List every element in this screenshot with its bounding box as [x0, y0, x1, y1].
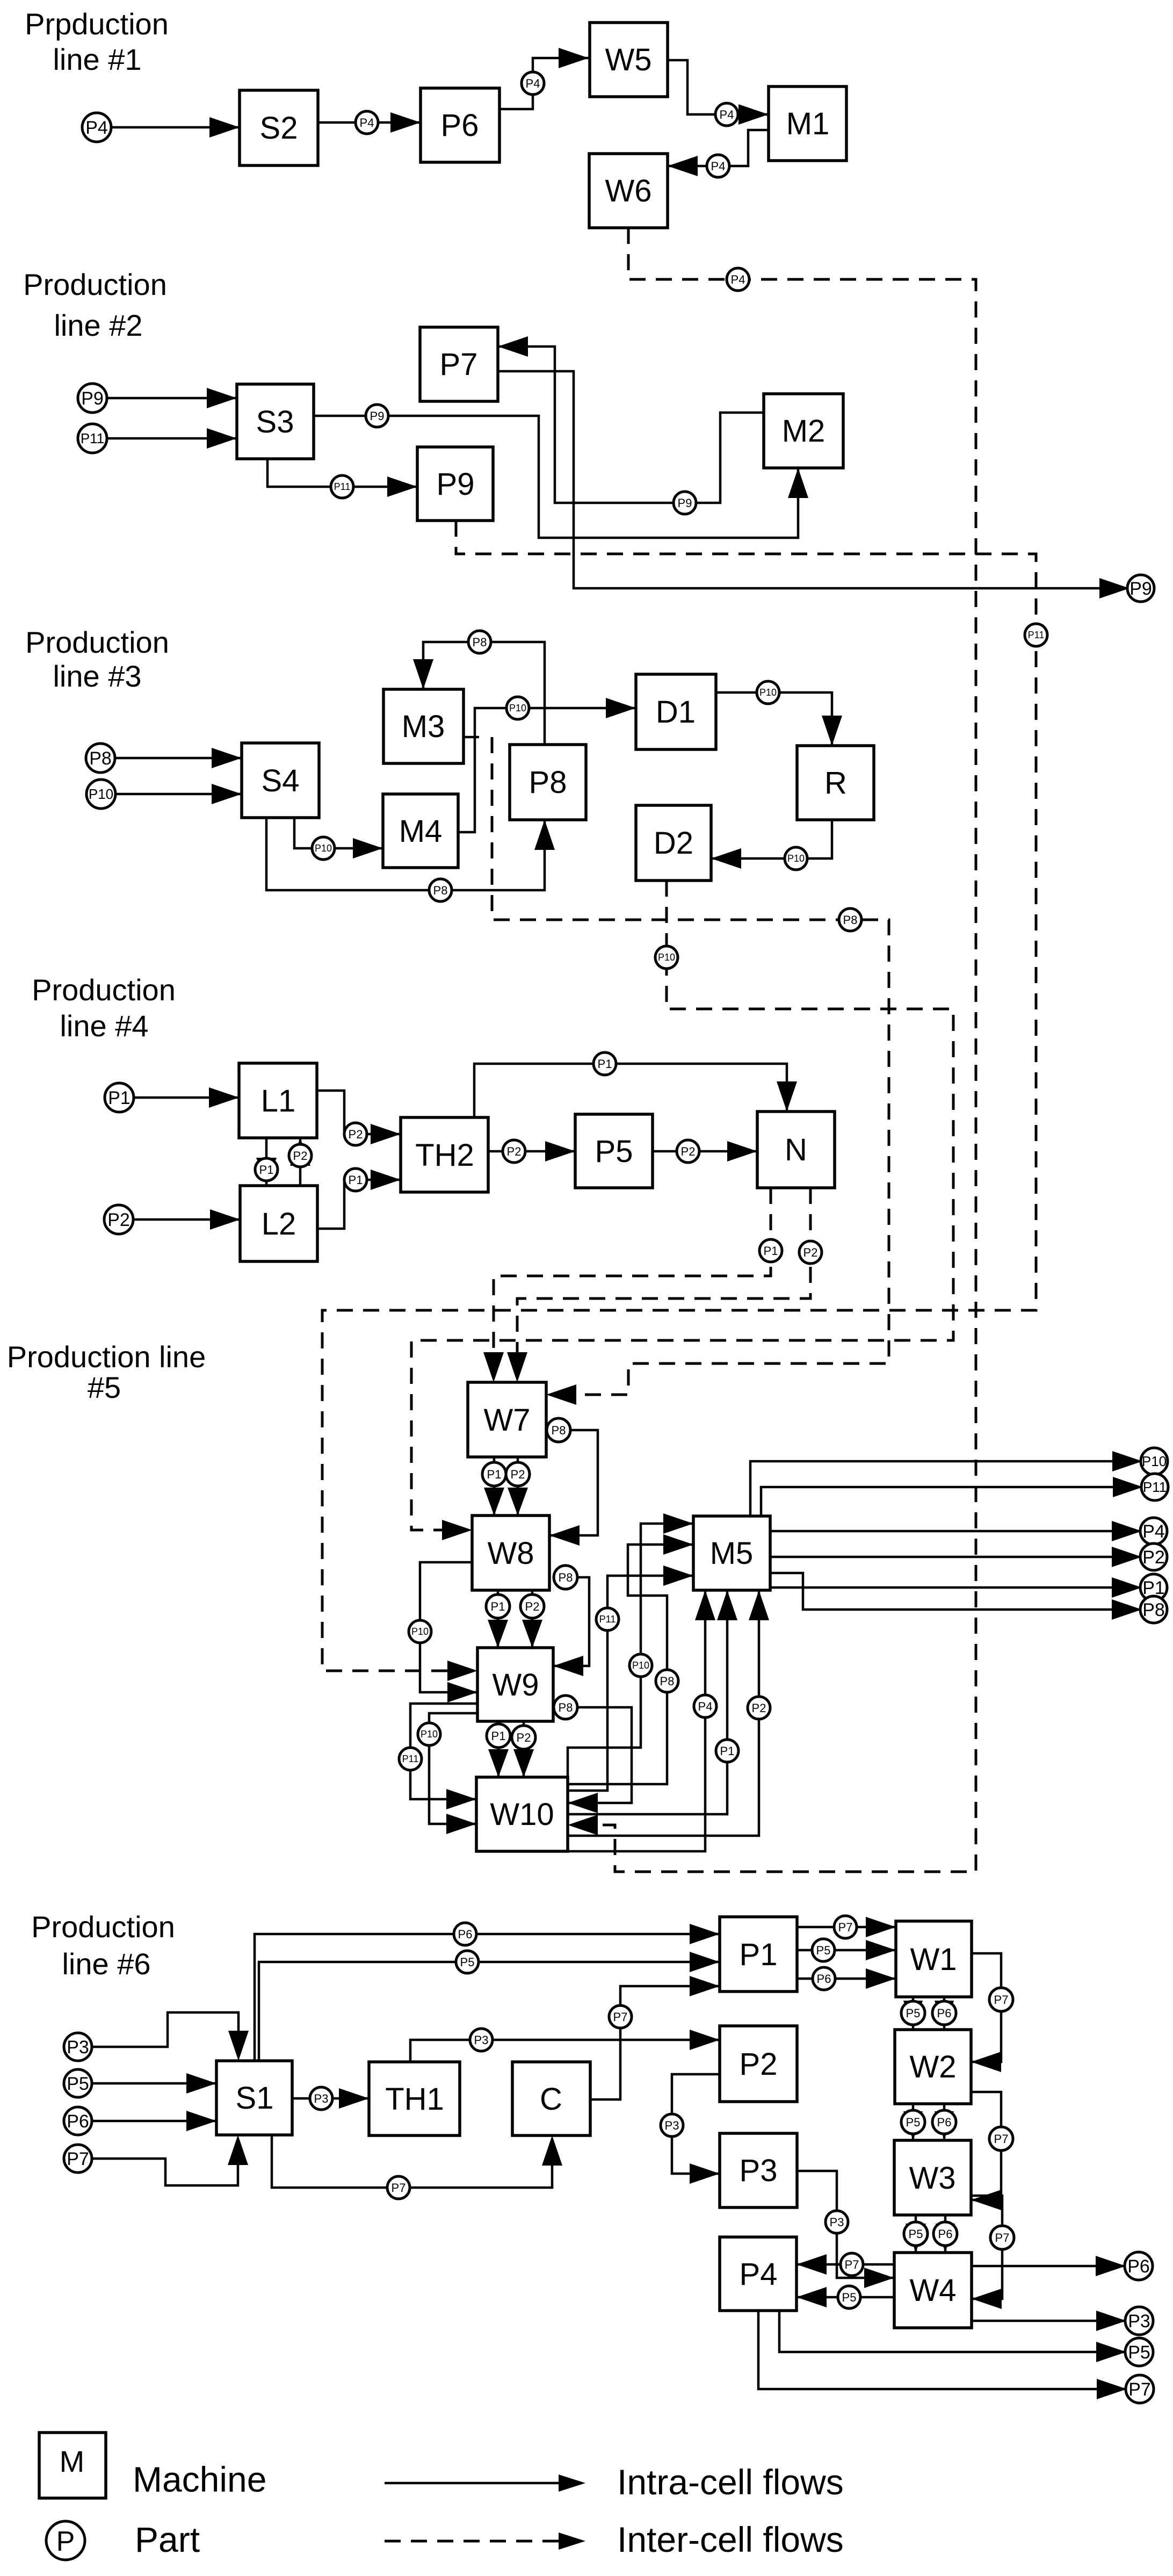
- arrow into L2: [210, 1209, 240, 1230]
- wire W5 to M1: [668, 60, 769, 114]
- arrow into P1 (P6): [690, 1924, 720, 1944]
- arrow to P7 output: [1097, 2379, 1127, 2399]
- part output P6 line6: [1125, 2252, 1153, 2280]
- svg-text:N: N: [785, 1132, 807, 1167]
- part circle P4: [707, 155, 729, 177]
- arrow into P7: [498, 336, 528, 357]
- wire P4 output P5: [779, 2311, 1126, 2352]
- arrow into W4 left (P3): [864, 2268, 894, 2288]
- svg-text:#5: #5: [88, 1370, 121, 1404]
- svg-text:P11: P11: [1028, 630, 1045, 640]
- svg-text:P11: P11: [1143, 1479, 1167, 1495]
- svg-text:P2: P2: [752, 1701, 766, 1715]
- wire W3-W4 (P5): [915, 2215, 917, 2253]
- part circle P2: [289, 1144, 312, 1167]
- svg-text:P1: P1: [108, 1088, 131, 1108]
- arrow into P3 box: [690, 2163, 720, 2184]
- part output P5 line6: [1125, 2338, 1153, 2366]
- wire D1 to R: [716, 692, 832, 746]
- wire W10 to M5 (P4): [568, 1590, 705, 1851]
- arrow into P5: [545, 1141, 575, 1161]
- svg-text:P5: P5: [906, 2116, 921, 2129]
- machine box TH1: [369, 2062, 460, 2135]
- wire W10 to M5 (P10): [568, 1524, 693, 1777]
- arrow into M5 left (P10): [663, 1513, 693, 1534]
- svg-text:P9: P9: [437, 467, 475, 502]
- part circle P2: [344, 1123, 367, 1145]
- svg-text:P2: P2: [1142, 1547, 1165, 1568]
- part circle P7: [609, 2005, 632, 2028]
- arrow into D2: [711, 848, 741, 869]
- dashed wire D2 to W8 (P10 inter-cell): [411, 881, 953, 1530]
- arrow into S4 lower: [212, 784, 242, 804]
- svg-text:P7: P7: [613, 2010, 628, 2024]
- svg-text:P11: P11: [599, 1614, 616, 1625]
- svg-text:P8: P8: [559, 1571, 573, 1584]
- wire W2-W3 (P6): [943, 2104, 946, 2140]
- part circle P1: [482, 1462, 506, 1486]
- legend inter-cell dashed arrow: [385, 2540, 559, 2543]
- svg-text:Machine: Machine: [133, 2459, 266, 2499]
- part circle P10: [418, 1723, 440, 1745]
- wire W10 to M5 (P1): [568, 1590, 727, 1814]
- svg-text:P1: P1: [349, 1173, 363, 1187]
- svg-text:P1: P1: [259, 1163, 274, 1177]
- svg-text:Part: Part: [135, 2520, 200, 2559]
- part input P4 line1: [82, 113, 111, 142]
- arrow into N: [727, 1141, 757, 1161]
- arrow into P9 box: [387, 477, 417, 497]
- svg-text:P8: P8: [89, 748, 112, 769]
- machine box W8: [472, 1516, 549, 1590]
- part circle P2: [503, 1140, 525, 1163]
- wire W2 loop to W3 (P7): [971, 2092, 1001, 2200]
- wire P11 input to S3: [107, 437, 237, 440]
- arrow into W10 right (P8): [568, 1793, 598, 1813]
- wire W4 to P4 (P5): [797, 2296, 894, 2299]
- machine box W3: [894, 2140, 971, 2215]
- part circle P5: [812, 1939, 835, 1961]
- wire W8 left loop to W9 (P10): [420, 1562, 477, 1692]
- svg-text:P10: P10: [89, 786, 113, 802]
- svg-text:Production: Production: [32, 973, 176, 1007]
- arrow into W7 top (P1): [483, 1352, 504, 1382]
- wire P2 to P3 (P3): [672, 2074, 720, 2174]
- svg-text:P9: P9: [1129, 579, 1152, 599]
- wire TH2 to N top: [474, 1064, 787, 1117]
- wire W8 to W9 P2: [531, 1590, 534, 1648]
- svg-text:Intra-cell flows: Intra-cell flows: [617, 2462, 844, 2502]
- part circle P4: [694, 1695, 716, 1718]
- machine box M2: [764, 394, 843, 468]
- arrow into M2 bottom: [788, 468, 808, 498]
- part circle P6: [932, 2110, 956, 2134]
- svg-text:P5: P5: [460, 1956, 475, 1969]
- arrow to P10 output: [1112, 1451, 1142, 1471]
- svg-text:P5: P5: [67, 2074, 89, 2094]
- part circle P5: [456, 1951, 479, 1973]
- dashed wire P9 box to W9 (P11 inter-cell): [322, 521, 1036, 1671]
- part circle P7: [989, 1988, 1013, 2011]
- wire L1 to TH2: [317, 1091, 401, 1134]
- wire S1 to C (P7): [272, 2135, 552, 2188]
- svg-text:P6: P6: [817, 1972, 831, 1986]
- arrow to P3 output: [1096, 2311, 1126, 2331]
- arrow into S1 (P5): [186, 2073, 216, 2094]
- svg-text:P6: P6: [937, 2007, 952, 2020]
- svg-text:P5: P5: [1128, 2342, 1150, 2363]
- svg-text:M3: M3: [402, 709, 445, 744]
- svg-text:M1: M1: [786, 106, 830, 141]
- svg-text:P4: P4: [720, 108, 734, 121]
- arrow to P6 output: [1096, 2256, 1126, 2276]
- arrow into W9 left (P11): [447, 1661, 477, 1681]
- arrow into W6: [668, 156, 698, 176]
- svg-text:P4: P4: [526, 77, 540, 90]
- wire M5 output P4: [770, 1530, 1129, 1533]
- svg-text:line #2: line #2: [54, 308, 142, 342]
- svg-text:P7: P7: [67, 2149, 89, 2169]
- svg-text:L2: L2: [262, 1207, 296, 1242]
- svg-text:P7: P7: [392, 2181, 406, 2195]
- machine box S2: [240, 90, 318, 165]
- svg-text:P1: P1: [491, 1729, 506, 1743]
- svg-text:P2: P2: [740, 2047, 778, 2082]
- svg-text:P8: P8: [559, 1701, 573, 1714]
- part circle P5: [901, 2110, 925, 2134]
- wire P7 input to S1 bottom: [92, 2146, 238, 2185]
- arrow into W3 right (P7): [971, 2190, 1001, 2210]
- wire M5 output P1: [770, 1586, 1129, 1589]
- svg-text:P10: P10: [315, 843, 332, 854]
- arrow into W9 top (P1): [488, 1620, 508, 1648]
- arrow into P4 (P7): [797, 2254, 827, 2275]
- legend intra-cell arrowhead: [559, 2474, 585, 2492]
- part circle P4: [727, 268, 749, 291]
- dashed wire N to W7 (P2 inter-cell): [517, 1188, 810, 1372]
- machine box S4: [242, 743, 319, 818]
- part circle P1: [487, 1724, 510, 1748]
- wire W4 output P3: [972, 2320, 1126, 2322]
- part output P1 line5: [1140, 1574, 1167, 1601]
- arrow into M5 bottom (P1): [717, 1590, 737, 1620]
- machine box M1: [769, 86, 846, 161]
- arrow into M5 bottom (P2): [749, 1590, 769, 1620]
- wire S1 to P1 (P5): [259, 1962, 720, 2061]
- machine box P7: [420, 327, 498, 401]
- part circle P10: [506, 697, 529, 719]
- wire R to D2: [711, 820, 832, 858]
- machine box W6: [589, 154, 668, 228]
- part circle P9: [366, 405, 388, 427]
- machine box S3: [237, 384, 314, 459]
- arrow into W10 left (P11): [446, 1789, 476, 1809]
- arrow into P4 (P5): [797, 2287, 827, 2307]
- wire S3 to P9 box: [267, 459, 417, 487]
- svg-text:P7: P7: [440, 347, 478, 382]
- part input P10 line3: [86, 780, 115, 809]
- part circle P1: [593, 1052, 616, 1075]
- svg-text:P3: P3: [665, 2119, 679, 2132]
- part circle P11: [596, 1608, 619, 1630]
- svg-text:P10: P10: [632, 1660, 649, 1671]
- part input P11 line2: [78, 424, 107, 453]
- svg-text:P3: P3: [830, 2216, 844, 2229]
- svg-text:W10: W10: [490, 1797, 554, 1832]
- part input P8 line3: [86, 744, 115, 773]
- svg-text:P11: P11: [334, 481, 351, 492]
- wire S3 to M2: [314, 416, 798, 538]
- svg-text:P3: P3: [740, 2153, 778, 2188]
- part output P2 line5: [1140, 1543, 1167, 1570]
- part circle P3: [661, 2114, 683, 2137]
- wire TH1 to P2 (P3): [410, 2040, 720, 2062]
- svg-text:P2: P2: [107, 1210, 130, 1230]
- svg-text:P9: P9: [81, 388, 104, 409]
- wire P5 to N: [653, 1150, 757, 1153]
- wire L2 to L1: [299, 1138, 302, 1186]
- arrow into C bottom: [542, 2135, 562, 2166]
- part circle P11: [399, 1748, 422, 1770]
- dashed wire M3 to W7 (P8 inter-cell): [492, 737, 889, 1395]
- svg-text:P3: P3: [1128, 2311, 1150, 2332]
- part circle P11: [331, 475, 353, 498]
- svg-text:P: P: [56, 2526, 75, 2557]
- svg-text:P8: P8: [552, 1424, 566, 1437]
- arrow into P6: [390, 112, 421, 133]
- machine box W9: [477, 1648, 553, 1721]
- part circle P1: [759, 1239, 782, 1262]
- part circle P4: [715, 103, 738, 126]
- svg-text:W1: W1: [910, 1942, 957, 1977]
- arrow into M5 left (P11): [663, 1565, 693, 1586]
- arrow into W7 top (P2): [507, 1352, 527, 1382]
- part output P7 line6: [1126, 2375, 1154, 2403]
- wire M5 output P8: [770, 1573, 1129, 1610]
- wire P2 input to L2: [133, 1218, 240, 1221]
- svg-text:P11: P11: [81, 430, 104, 446]
- arrow into M5 bottom (P4): [695, 1590, 715, 1620]
- part circle P10: [629, 1654, 652, 1677]
- arrow into M5 left (P8): [663, 1534, 693, 1555]
- wire M5 output P11: [761, 1487, 1130, 1516]
- wire P1 to W1 (P7): [797, 1926, 896, 1929]
- part circle P8: [468, 631, 491, 653]
- machine box W4: [894, 2253, 972, 2328]
- svg-text:P4: P4: [1142, 1521, 1165, 1542]
- svg-text:P4: P4: [740, 2257, 778, 2292]
- svg-text:W9: W9: [493, 1668, 539, 1702]
- wire P3 input to S1 top: [92, 2012, 238, 2050]
- wire W4 to P4 (P7): [797, 2263, 894, 2266]
- machine box D1: [636, 674, 716, 749]
- part circle P10: [757, 681, 779, 704]
- wire W1-W2 (P5): [912, 1997, 915, 2030]
- wire W7 P8 loop to W8: [549, 1430, 598, 1535]
- wire P4 output P7: [758, 2311, 1127, 2389]
- wire S2 to P6: [318, 121, 421, 124]
- svg-text:P4: P4: [360, 116, 374, 129]
- svg-text:P4: P4: [698, 1700, 713, 1713]
- part circle P2: [677, 1140, 699, 1163]
- wire P6 to W5: [499, 58, 589, 109]
- svg-text:Production: Production: [25, 625, 169, 659]
- part circle P10: [409, 1620, 431, 1643]
- wire W3-W4 (P6): [944, 2215, 947, 2253]
- part circle P6: [932, 2001, 956, 2025]
- part circle P4: [522, 72, 544, 95]
- dashed wire N to W7 (P1 inter-cell): [494, 1188, 771, 1372]
- arrow into N top: [777, 1081, 797, 1112]
- svg-text:P7: P7: [994, 2132, 1009, 2146]
- arrow into W1 (P6): [866, 1968, 896, 1989]
- part output P9 line2: [1127, 575, 1154, 602]
- part circle P4: [356, 111, 378, 134]
- wire P8 input to S4: [115, 757, 242, 760]
- svg-text:P5: P5: [906, 2007, 921, 2020]
- svg-text:P8: P8: [843, 913, 858, 927]
- wire W3 loop to W4 (P7): [971, 2196, 1002, 2299]
- svg-text:Production: Production: [31, 1910, 175, 1944]
- part output P11 line5: [1141, 1474, 1168, 1500]
- part circle P8: [429, 879, 452, 901]
- svg-text:W4: W4: [910, 2273, 957, 2308]
- part circle P7: [990, 2226, 1014, 2249]
- svg-text:P4: P4: [731, 273, 745, 286]
- part circle P5: [901, 2001, 925, 2025]
- arrow into W7 right (P8): [546, 1384, 576, 1405]
- svg-text:P3: P3: [67, 2037, 89, 2058]
- wire M5 output P2: [770, 1556, 1129, 1558]
- svg-text:P1: P1: [491, 1600, 505, 1613]
- part circle P2: [748, 1697, 770, 1719]
- svg-text:P1: P1: [720, 1744, 735, 1758]
- arrow into S1 (P6): [186, 2111, 216, 2131]
- arrow into P1 (P7): [690, 1976, 720, 1996]
- arrow into W8 top (P1): [484, 1488, 504, 1516]
- arrow into W10 top (P2): [513, 1749, 534, 1777]
- legend intra-cell arrow: [385, 2482, 561, 2485]
- svg-text:P8: P8: [529, 765, 567, 800]
- svg-text:TH2: TH2: [415, 1138, 474, 1173]
- svg-text:P8: P8: [660, 1675, 675, 1688]
- arrow into R top: [822, 716, 842, 746]
- dashed wire W6 to W10 (P4 inter-cell): [591, 228, 976, 1872]
- legend machine symbol: [39, 2433, 106, 2498]
- wire P4 input to S2: [111, 126, 240, 129]
- svg-text:P1: P1: [740, 1937, 778, 1972]
- svg-text:P10: P10: [787, 853, 805, 864]
- svg-text:P10: P10: [1142, 1453, 1167, 1469]
- svg-text:P11: P11: [402, 1754, 419, 1764]
- svg-text:P10: P10: [421, 1729, 438, 1740]
- wire W9 P8 loop to W10: [568, 1707, 632, 1803]
- part circle P8: [547, 1418, 570, 1442]
- machine box W5: [590, 23, 668, 97]
- wire P1 to W1 (P5): [797, 1949, 896, 1952]
- wire S1 to P1 (P6): [255, 1934, 720, 2061]
- part circle P1: [344, 1168, 367, 1191]
- part circle P2: [512, 1726, 535, 1749]
- arrow into TH2 lower: [371, 1170, 401, 1190]
- machine box TH2: [401, 1117, 488, 1192]
- machine box P5: [575, 1114, 653, 1188]
- svg-text:P2: P2: [293, 1149, 308, 1163]
- svg-text:P2: P2: [681, 1145, 696, 1158]
- wire P9 input to S3: [107, 397, 237, 400]
- arrow into S3 upper: [207, 388, 237, 408]
- arrow to P2 output: [1112, 1547, 1142, 1567]
- machine box P9: [417, 447, 493, 521]
- svg-text:P1: P1: [487, 1468, 502, 1481]
- svg-text:line #3: line #3: [53, 659, 141, 693]
- wire S1 to TH1: [292, 2097, 369, 2100]
- part circle P7: [387, 2176, 410, 2199]
- arrow into S2: [209, 117, 240, 138]
- wire L2 to TH2: [317, 1180, 401, 1229]
- wire W10 to M5 (P2): [568, 1590, 759, 1836]
- svg-text:P2: P2: [803, 1246, 818, 1259]
- wire P6 input to S1: [92, 2120, 216, 2123]
- part output P4 line5: [1140, 1518, 1167, 1545]
- part circle P8: [554, 1565, 577, 1589]
- arrow to P9 output: [1099, 578, 1129, 598]
- wire M3 right stub: [464, 736, 479, 739]
- arrow into M1: [738, 104, 769, 125]
- svg-text:P5: P5: [842, 2291, 857, 2304]
- part circle P6: [933, 2222, 957, 2246]
- arrow into W10 right (P4): [568, 1815, 598, 1835]
- part circle P1: [716, 1740, 738, 1762]
- part circle P7: [841, 2253, 863, 2276]
- arrow into W1 (P7): [866, 1917, 896, 1937]
- svg-text:P6: P6: [441, 108, 479, 143]
- part circle P8: [656, 1670, 678, 1692]
- wire W10 to M5 (P11): [568, 1576, 693, 1791]
- part input P7 line6: [64, 2145, 92, 2173]
- arrow into TH2 upper: [371, 1124, 401, 1144]
- part circle P1: [486, 1594, 510, 1618]
- svg-text:P6: P6: [938, 2227, 953, 2241]
- part circle P10: [655, 946, 678, 969]
- svg-text:line #6: line #6: [62, 1947, 150, 1981]
- legend inter-cell arrowhead: [559, 2532, 585, 2550]
- part input P6 line6: [64, 2107, 92, 2135]
- svg-text:P7: P7: [838, 1921, 853, 1934]
- part circle P3: [470, 2029, 493, 2051]
- svg-text:W5: W5: [605, 42, 652, 77]
- svg-text:S2: S2: [260, 111, 298, 146]
- arrow W3-W4 P6: [936, 2224, 955, 2253]
- svg-text:Inter-cell flows: Inter-cell flows: [617, 2520, 844, 2559]
- svg-text:P7: P7: [995, 2231, 1010, 2245]
- svg-text:M5: M5: [710, 1536, 754, 1571]
- svg-text:P4: P4: [711, 160, 726, 173]
- svg-text:Production: Production: [23, 268, 167, 301]
- wire W1-W2 (P6): [943, 1997, 946, 2030]
- svg-text:D1: D1: [656, 695, 696, 730]
- svg-text:P6: P6: [937, 2116, 952, 2129]
- arrow into W8 left (P10): [442, 1520, 472, 1540]
- part input P9 line2: [78, 384, 107, 413]
- svg-text:P10: P10: [658, 952, 675, 963]
- part input P3 line6: [64, 2033, 92, 2061]
- part circle P8: [554, 1695, 577, 1719]
- wire P1 input to L1: [134, 1096, 239, 1099]
- svg-text:P2: P2: [507, 1145, 522, 1158]
- svg-text:P8: P8: [1142, 1600, 1165, 1620]
- wire L1 to L2: [265, 1138, 268, 1186]
